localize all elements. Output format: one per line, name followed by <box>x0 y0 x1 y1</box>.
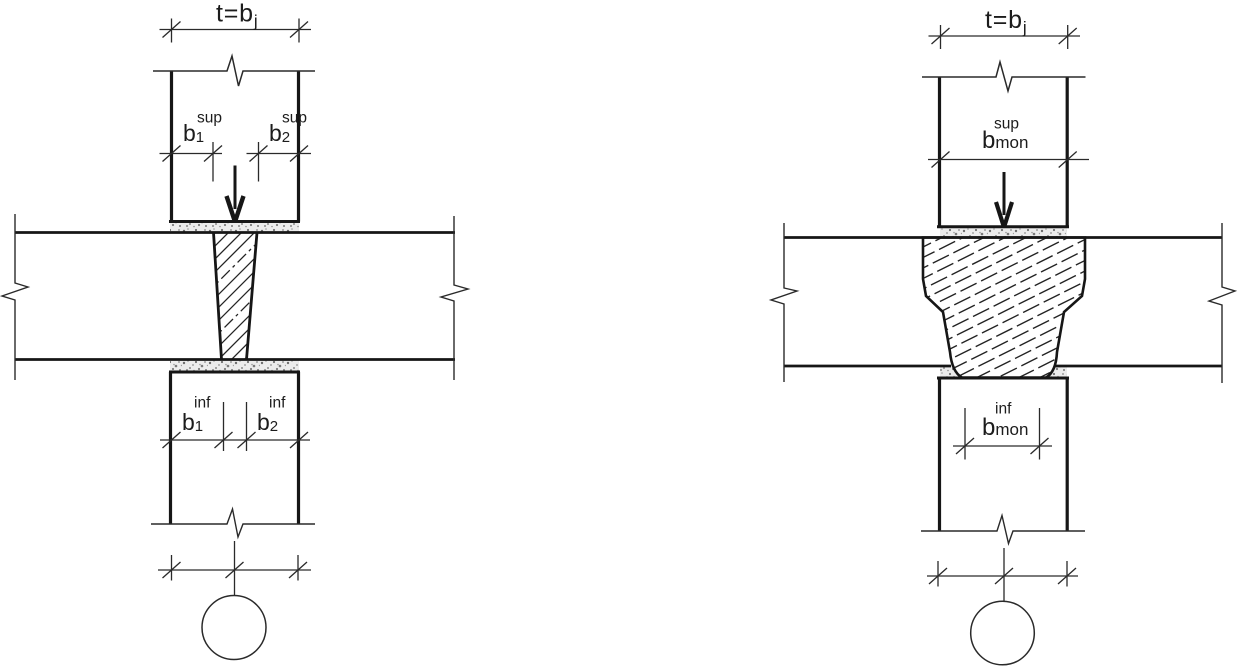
left slab left end edge with break <box>2 214 28 380</box>
lower wall (right detail) top edge <box>937 377 1069 380</box>
lower wall (left detail) left edge <box>169 372 172 524</box>
left slab right end edge with break <box>441 216 468 380</box>
lower wall (right detail) left edge <box>938 378 941 531</box>
load arrow (left detail) <box>227 166 244 221</box>
svg-text:t=bj: t=bj <box>216 0 258 31</box>
lower wall (right detail) right edge <box>1066 378 1069 531</box>
dimension bmon sup (right detail) <box>928 152 1089 168</box>
mortar bed joint below left slab <box>170 360 299 372</box>
mortar bed joint below right slab <box>940 367 1067 378</box>
centre axis line (left detail) <box>234 541 236 595</box>
svg-text:sup: sup <box>282 110 307 127</box>
svg-text:inf: inf <box>269 395 286 412</box>
lower wall (left detail) bottom break line <box>151 509 315 537</box>
svg-text:t=bj: t=bj <box>985 6 1027 37</box>
svg-text:sup: sup <box>197 110 222 127</box>
upper wall (right detail) right edge <box>1066 77 1069 227</box>
dimension t=bj (right detail) <box>929 25 1081 49</box>
upper wall (right detail) top break line <box>922 62 1086 91</box>
hatched monolithic joint core (right detail) <box>880 133 1130 468</box>
section bubble (left detail) <box>202 596 266 660</box>
upper wall (left detail) left edge <box>170 71 173 222</box>
dimension t=bj (left detail) <box>160 19 312 43</box>
svg-text:inf: inf <box>194 395 211 412</box>
svg-text:inf: inf <box>995 401 1012 418</box>
centre axis line (right detail) <box>1003 548 1005 602</box>
right slab bottom line left segment <box>784 365 951 368</box>
bottom dimension line (right detail) <box>927 561 1078 587</box>
mortar bed joint above right slab <box>940 228 1067 238</box>
upper wall (right detail) left edge <box>938 77 941 227</box>
hatched joint core (left detail) <box>88 230 387 360</box>
dimension bmon inf (right detail) <box>953 408 1052 460</box>
mortar bed joint above left slab <box>170 223 299 233</box>
right slab top line <box>784 236 1222 239</box>
bottom dimension line (left detail) <box>158 555 311 581</box>
upper wall (left detail) bottom edge <box>169 220 300 223</box>
svg-text:sup: sup <box>994 116 1019 133</box>
lower wall (left detail) top edge <box>169 371 300 374</box>
load arrow (right detail) <box>996 172 1012 226</box>
dimension b1inf b2inf (left detail) <box>160 402 310 451</box>
right slab bottom line right segment <box>1055 365 1222 368</box>
upper wall (left detail) right edge <box>297 71 300 222</box>
right slab right end edge with break <box>1209 223 1235 383</box>
dimension b1sup b2sup (left detail) <box>160 142 312 182</box>
right slab left end edge with break <box>771 223 797 382</box>
upper wall (left detail) top break line <box>153 56 315 86</box>
section bubble (right detail) <box>971 601 1035 665</box>
left slab top line <box>15 231 455 234</box>
upper wall (right detail) bottom edge <box>937 225 1069 228</box>
lower wall (right detail) bottom break line <box>921 516 1085 544</box>
lower wall (left detail) right edge <box>297 372 300 524</box>
left slab bottom line <box>15 358 455 361</box>
